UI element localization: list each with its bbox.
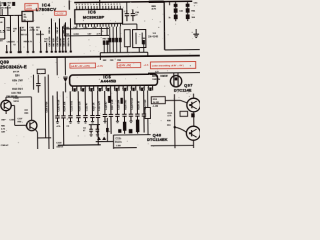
svg-text:C107: C107 xyxy=(17,118,23,120)
svg-text:1k: 1k xyxy=(168,17,170,19)
svg-text:C124 47: C124 47 xyxy=(106,101,108,110)
svg-text:R75: R75 xyxy=(152,76,157,78)
svg-text:C104 47/16: C104 47/16 xyxy=(46,101,48,113)
svg-text:DTC114EK: DTC114EK xyxy=(147,137,168,142)
svg-text:C93 0.01: C93 0.01 xyxy=(63,37,65,47)
svg-text:3: 3 xyxy=(114,4,115,6)
svg-text:L.36: L.36 xyxy=(153,106,158,108)
svg-text:1k 1W: 1k 1W xyxy=(153,102,159,104)
svg-text:R61 C62: R61 C62 xyxy=(103,38,112,40)
svg-text:C109 47: C109 47 xyxy=(1,145,9,147)
svg-text:0: 0 xyxy=(93,4,94,6)
svg-text:C123 224: C123 224 xyxy=(99,100,101,111)
svg-text:DTC114E: DTC114E xyxy=(174,87,192,92)
svg-text:C122 47: C122 47 xyxy=(86,102,88,111)
svg-text:100 788: 100 788 xyxy=(11,91,21,95)
svg-text:+4.8: +4.8 xyxy=(143,64,148,67)
svg-text:R110s: R110s xyxy=(115,141,123,144)
svg-text:+[2.4V→0V]: +[2.4V→0V] xyxy=(118,65,131,67)
svg-text:C121 0.01: C121 0.01 xyxy=(71,100,73,111)
svg-text:R95 4.7k: R95 4.7k xyxy=(24,41,33,43)
svg-text:+12.6V: +12.6V xyxy=(55,12,63,15)
svg-text:R105 220: R105 220 xyxy=(79,101,81,112)
svg-text:L7808CV: L7808CV xyxy=(36,7,57,12)
svg-text:68k 2W: 68k 2W xyxy=(12,78,23,82)
svg-text:5: 5 xyxy=(79,4,80,6)
svg-text:R108 560: R108 560 xyxy=(125,99,127,110)
svg-text:0.018: 0.018 xyxy=(74,34,80,36)
svg-text:R90 4.7k: R90 4.7k xyxy=(68,37,70,47)
svg-text:R93 10k: R93 10k xyxy=(36,34,45,36)
svg-text:R64: R64 xyxy=(117,60,120,62)
svg-text:2: 2 xyxy=(116,4,117,6)
svg-text:4.7k: 4.7k xyxy=(57,126,61,128)
svg-text:C120 47/16: C120 47/16 xyxy=(58,99,60,111)
svg-text:1N910M: 1N910M xyxy=(152,79,160,81)
svg-text:C91 47/16: C91 47/16 xyxy=(57,36,59,47)
svg-text:6: 6 xyxy=(105,4,106,6)
svg-text:R62: R62 xyxy=(103,60,106,62)
svg-text:A4445B: A4445B xyxy=(100,78,116,83)
svg-text:R101: R101 xyxy=(167,113,173,115)
svg-text:R89 10k: R89 10k xyxy=(60,37,62,46)
svg-text:R107 2.2k: R107 2.2k xyxy=(112,99,114,110)
svg-text:C85 47/16: C85 47/16 xyxy=(49,36,51,47)
svg-text:+4.8V: +4.8V xyxy=(97,65,104,68)
svg-text:1.5M: 1.5M xyxy=(116,145,121,147)
svg-text:2SC3242A-E: 2SC3242A-E xyxy=(0,64,27,69)
svg-text:9: 9 xyxy=(96,4,97,6)
svg-text:C126 47/16: C126 47/16 xyxy=(132,97,134,109)
svg-text:+0.2V: +0.2V xyxy=(26,8,32,10)
svg-text:10/16: 10/16 xyxy=(21,30,27,32)
svg-text:100/16: 100/16 xyxy=(56,146,63,148)
svg-text:C92 47: C92 47 xyxy=(57,26,59,34)
svg-text:4H 1R: 4H 1R xyxy=(13,71,20,73)
svg-text:+4.8V: +4.8V xyxy=(26,5,32,7)
svg-text:1: 1 xyxy=(119,4,120,6)
svg-text:( when transmitting +4.8V → 0V: ( when transmitting +4.8V → 0V ) xyxy=(152,64,184,67)
svg-text:4: 4 xyxy=(82,4,83,6)
svg-text:R109 1k: R109 1k xyxy=(138,100,140,109)
svg-text:R90 1k: R90 1k xyxy=(49,26,51,34)
svg-text:R92 0.01: R92 0.01 xyxy=(20,34,29,36)
svg-text:MC3361BP: MC3361BP xyxy=(83,14,105,19)
svg-text:R104 10k: R104 10k xyxy=(64,101,66,112)
svg-text:1: 1 xyxy=(90,4,91,6)
svg-text:8: 8 xyxy=(99,4,100,6)
svg-text:10/16: 10/16 xyxy=(13,101,19,103)
svg-text:10k1W: 10k1W xyxy=(160,76,168,78)
svg-text:4: 4 xyxy=(111,4,112,6)
svg-text:C103: C103 xyxy=(56,142,62,144)
svg-text:C94 220: C94 220 xyxy=(7,41,16,43)
svg-text:C125 104: C125 104 xyxy=(118,99,120,110)
svg-text:R93 R94: R93 R94 xyxy=(12,87,23,91)
svg-text:1.5: 1.5 xyxy=(0,30,5,34)
svg-text:3: 3 xyxy=(84,4,85,6)
svg-text:2: 2 xyxy=(87,4,88,6)
svg-text:R106 1k: R106 1k xyxy=(93,102,95,111)
svg-text:7: 7 xyxy=(102,4,103,6)
svg-text:1N-4148: 1N-4148 xyxy=(148,34,159,38)
svg-text:C63: C63 xyxy=(110,60,113,62)
svg-text:47/16: 47/16 xyxy=(30,30,36,32)
svg-text:(+4.8V→0V→4.8V): (+4.8V→0V→4.8V) xyxy=(71,66,90,68)
svg-text:6: 6 xyxy=(76,4,77,6)
svg-text:5: 5 xyxy=(108,4,109,6)
svg-text:R87 220: R87 220 xyxy=(53,38,55,47)
svg-text:4.7k: 4.7k xyxy=(1,129,5,131)
